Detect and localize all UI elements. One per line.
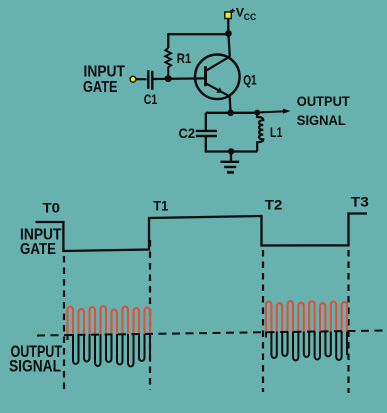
label INPUT GATE (timing) (20, 227, 62, 258)
output burst 1 upper (red) (68, 306, 151, 367)
capacitor C2 (196, 131, 217, 136)
svg-text:C2: C2 (179, 125, 196, 141)
node emitter-tank (227, 110, 234, 117)
svg-text:SIGNAL: SIGNAL (297, 112, 346, 128)
output burst 2 lower (black) (266, 301, 347, 360)
wire output with arrow (257, 111, 285, 112)
node output tap (254, 110, 260, 116)
input gate waveform (36, 214, 368, 252)
svg-text:OUTPUT: OUTPUT (297, 93, 350, 109)
wire top rail to R1 (168, 34, 228, 48)
label +Vcc (230, 6, 256, 23)
dashed line T1 (149, 240, 151, 390)
transistor Q1 (195, 55, 240, 100)
label OUTPUT SIGNAL (circuit) (297, 93, 350, 128)
dashed line T3 (347, 250, 349, 393)
svg-text:INPUT: INPUT (84, 64, 126, 81)
svg-text:L1: L1 (270, 124, 283, 140)
svg-text:R1: R1 (177, 50, 192, 66)
output burst 2 upper (red) (266, 301, 347, 360)
node base junction (165, 75, 172, 82)
dashed center line (37, 331, 386, 336)
wire C1 to base (154, 77, 206, 80)
svg-text:Q1: Q1 (243, 72, 257, 88)
svg-text:T1: T1 (153, 197, 168, 213)
Vcc supply terminal (225, 12, 232, 19)
svg-text:CC: CC (244, 12, 257, 22)
resistor R1 (165, 48, 171, 78)
ground (221, 151, 240, 172)
wire Vcc to junction (227, 19, 229, 34)
output burst 1 lower (black) (68, 306, 151, 367)
label INPUT GATE (circuit) (83, 64, 125, 97)
node junction at Vcc rail (225, 30, 232, 37)
wire tank top (206, 112, 257, 114)
svg-text:GATE: GATE (20, 241, 56, 258)
svg-text:T2: T2 (265, 196, 283, 212)
input terminal (130, 76, 136, 82)
wire C2 bottom (206, 137, 257, 152)
svg-text:SIGNAL: SIGNAL (9, 358, 61, 376)
wire collector (228, 34, 229, 57)
capacitor C1 (148, 70, 152, 90)
svg-text:T3: T3 (351, 193, 369, 209)
svg-text:C1: C1 (144, 91, 158, 107)
svg-text:GATE: GATE (83, 79, 118, 96)
svg-text:T0: T0 (43, 199, 61, 215)
dashed line T0 (63, 256, 65, 394)
wire emitter down (230, 96, 231, 113)
node tank bottom (228, 148, 234, 154)
label OUTPUT SIGNAL (timing) (9, 343, 62, 376)
wire tank left down (205, 113, 207, 130)
wire input to C1 (136, 78, 147, 80)
inductor L1 (257, 113, 263, 152)
dashed line T2 (262, 250, 264, 392)
